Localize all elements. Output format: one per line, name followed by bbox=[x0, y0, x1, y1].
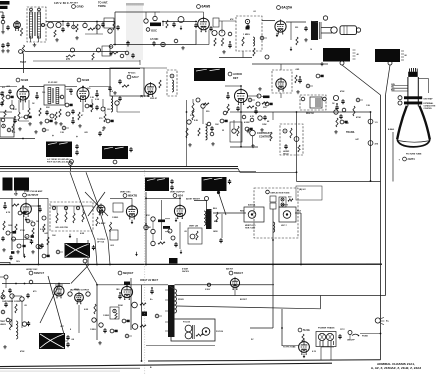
svg-text:68: 68 bbox=[102, 130, 104, 132]
resistor R53 bbox=[288, 199, 293, 201]
capacitor C41 bbox=[174, 242, 177, 247]
capacitor C45 bbox=[66, 335, 69, 340]
svg-text:1 MEG: 1 MEG bbox=[243, 34, 250, 36]
wire sync top bbox=[0, 197, 48, 199]
audio det dashed box bbox=[236, 16, 262, 51]
ground 16 bbox=[102, 126, 106, 130]
sound IF transformer can T1 bbox=[194, 68, 225, 81]
pin 39 bbox=[42, 216, 46, 220]
lead from can C50 bbox=[386, 65, 391, 95]
wire rect top bbox=[303, 338, 305, 342]
junction f2 bbox=[96, 264, 98, 266]
speaker bbox=[331, 26, 361, 35]
svg-text:22K: 22K bbox=[263, 107, 267, 109]
trimmer bbox=[60, 95, 64, 99]
pin 68 bbox=[1, 310, 5, 314]
terminal box 3 bbox=[110, 230, 118, 240]
ground 2 bbox=[55, 38, 59, 42]
junction e1 bbox=[186, 111, 188, 113]
pin 49 bbox=[205, 197, 209, 201]
capacitor x25 bbox=[3, 204, 6, 209]
label rect bbox=[298, 328, 310, 332]
title block bar 2 bbox=[0, 6, 8, 9]
capacitor blob x2 bbox=[29, 116, 32, 119]
svg-text:470K: 470K bbox=[356, 116, 361, 119]
wire sound if in2 bbox=[196, 44, 209, 46]
resistor R70 bbox=[110, 52, 118, 54]
horizontal coil can bbox=[65, 243, 91, 258]
capacitor C8 bbox=[116, 25, 119, 30]
ground 5 bbox=[6, 49, 10, 53]
scan edge artifact left bbox=[0, 371, 120, 372]
arrow down bbox=[290, 47, 293, 51]
wire agc stub bbox=[127, 45, 129, 48]
svg-text:.02: .02 bbox=[253, 11, 256, 13]
resistor R39 bbox=[32, 228, 34, 236]
lead x28 bbox=[30, 220, 33, 222]
wire stub up bbox=[87, 240, 89, 265]
resistor R68 bbox=[115, 313, 117, 319]
capacitor blob x29 bbox=[47, 255, 50, 258]
svg-text:3RD IF: 3RD IF bbox=[150, 98, 158, 100]
wire sync plate bbox=[31, 205, 39, 207]
svg-text:L.O.?25 MC 21.9 MC ADJ: L.O.?25 MC 21.9 MC ADJ bbox=[47, 158, 69, 161]
pin 28 bbox=[223, 111, 227, 115]
resistor R29 bold bbox=[263, 96, 270, 99]
can C49 terminal bbox=[340, 61, 344, 65]
wire 2 bbox=[194, 200, 207, 202]
wire tuner bottom bbox=[30, 36, 32, 42]
svg-text:ON-OFF: ON-OFF bbox=[347, 340, 355, 342]
wire to CRT cap1 bbox=[370, 112, 372, 181]
pin x33 bbox=[316, 74, 320, 78]
wire if bus1 bbox=[65, 86, 77, 88]
label vert out bbox=[173, 194, 183, 198]
yoke coil R symbol bbox=[283, 211, 291, 219]
capacitor C51 bbox=[284, 144, 287, 149]
junction x27 bbox=[39, 205, 41, 207]
junction a4 bbox=[195, 21, 197, 23]
resistor R59 bbox=[140, 325, 146, 327]
resistor R24 bbox=[198, 128, 200, 136]
svg-text:HOLD: HOLD bbox=[283, 153, 289, 155]
pin 29 bbox=[242, 115, 246, 119]
pin 47 bbox=[168, 229, 172, 233]
label horiz osc bbox=[29, 271, 44, 275]
resistor R2 bbox=[54, 30, 56, 37]
pin 42 bbox=[64, 206, 67, 209]
junction d1 bbox=[126, 284, 128, 286]
capacitor C52 bbox=[45, 110, 48, 115]
capacitor C14 bbox=[118, 79, 121, 84]
ground 6 bbox=[109, 52, 113, 56]
capacitor C42 bbox=[219, 238, 222, 243]
coil L3 bbox=[253, 37, 255, 46]
pin hh1 bbox=[283, 129, 287, 133]
capacitor blob x21 bbox=[127, 320, 130, 323]
wire speaker bot bbox=[321, 32, 332, 34]
resistor R48 bold bbox=[158, 220, 165, 223]
resistor R60 bbox=[196, 334, 203, 336]
svg-text:1W: 1W bbox=[36, 221, 39, 223]
svg-text:6.8K: 6.8K bbox=[80, 233, 85, 235]
wire tuner vertical bbox=[114, 12, 116, 45]
ground 23 bbox=[258, 87, 262, 91]
core line tuner 2 bbox=[35, 12, 37, 36]
ground 4 bbox=[1, 49, 5, 53]
width trans hatch bbox=[316, 98, 320, 107]
wire hv row2 bbox=[177, 295, 386, 297]
tube V14 horiz output bbox=[75, 292, 84, 305]
junction 4 bbox=[272, 239, 274, 241]
junction b3 bbox=[240, 85, 242, 87]
pin 74 bbox=[25, 235, 29, 239]
wire hv row3 bbox=[177, 306, 321, 309]
wire vert h bbox=[110, 197, 132, 199]
wire vert pins bbox=[152, 221, 154, 229]
junction x7 bbox=[72, 117, 74, 119]
wire bbox=[206, 201, 208, 210]
pin x8 bbox=[85, 104, 89, 108]
tube V11 vert osc bbox=[126, 204, 137, 219]
resistor R32 bbox=[227, 104, 229, 113]
junction 5 bbox=[281, 327, 283, 329]
svg-text:SYNC PULSE AMP: SYNC PULSE AMP bbox=[24, 190, 43, 193]
ground 12 bbox=[296, 90, 300, 94]
capacitor blob x15 bbox=[250, 128, 253, 131]
arrow down 5 bbox=[23, 254, 26, 258]
pin 54 bbox=[20, 297, 24, 301]
wire r8 top bbox=[76, 238, 78, 243]
switch arc bbox=[352, 334, 358, 335]
label 4AMP tube V2 bbox=[197, 5, 211, 9]
capacitor C38 bbox=[9, 255, 12, 260]
wire horizout v bbox=[78, 305, 80, 333]
wire integ stubs3 bbox=[73, 206, 75, 213]
wire rect h bbox=[282, 345, 299, 347]
wire osc v2 bbox=[154, 12, 156, 17]
wire sync v48 bbox=[47, 198, 49, 255]
svg-text:16: 16 bbox=[310, 49, 312, 51]
wire yoke chain bbox=[272, 209, 274, 328]
capacitor blob 5 bbox=[246, 27, 250, 30]
capacitor x14 bbox=[226, 94, 229, 99]
capacitor C56 bbox=[8, 288, 11, 293]
wire IF1 bbox=[29, 86, 44, 88]
wire vertical CRT bmag bbox=[392, 132, 394, 182]
tube V10 sync sep bbox=[97, 204, 105, 216]
wire rect drop 2 bbox=[330, 347, 332, 360]
diag wire X2 bbox=[88, 192, 105, 216]
cathode arrow 3 bbox=[25, 217, 28, 221]
capacitor C47 bbox=[103, 328, 106, 333]
resistor R20 bbox=[91, 103, 93, 112]
resistor R40 bbox=[43, 224, 45, 232]
capacitor C44 bbox=[27, 321, 30, 326]
pin 43 bbox=[76, 206, 79, 209]
svg-text:6AQ5A: 6AQ5A bbox=[282, 6, 293, 10]
svg-text:117V: 117V bbox=[340, 329, 345, 331]
pin 4 bbox=[108, 29, 112, 33]
resistor R23 bbox=[192, 103, 194, 113]
pin 25 bbox=[257, 94, 261, 98]
junction g3 bbox=[58, 283, 60, 285]
pin 64 bbox=[50, 114, 54, 118]
bus wire C bbox=[0, 263, 382, 265]
quadrature coil dashed box bbox=[167, 70, 177, 96]
terminal strip block bbox=[169, 258, 178, 264]
feedthru bbox=[19, 50, 23, 54]
yoke pictorial can bbox=[39, 333, 65, 349]
ground 13 bbox=[18, 127, 22, 131]
svg-text:21ZP4: 21ZP4 bbox=[408, 158, 416, 161]
wire sync left bbox=[11, 198, 13, 250]
antenna terminal bbox=[1, 20, 5, 24]
svg-text:115 V. 60 C.: 115 V. 60 C. bbox=[54, 1, 70, 5]
junction f1 bbox=[38, 264, 40, 266]
svg-text:VERT OSC: VERT OSC bbox=[120, 191, 131, 193]
capacitor x9 bbox=[95, 92, 98, 97]
junction f11 bbox=[22, 138, 24, 140]
speaker terminal bbox=[323, 16, 327, 20]
ground 18 bbox=[211, 142, 215, 146]
pin x6 bbox=[65, 103, 69, 107]
CRT socket pins bbox=[410, 68, 418, 72]
resistor R7 bbox=[113, 22, 115, 30]
terminal strip bbox=[102, 46, 110, 56]
wire tuner top bbox=[115, 11, 160, 13]
pin 20 bbox=[207, 122, 211, 126]
curved wire 2 bbox=[86, 172, 110, 264]
pin 11 bbox=[245, 19, 249, 23]
svg-text:2W: 2W bbox=[167, 227, 170, 229]
ground x5 bbox=[54, 121, 58, 125]
resistor R35 bbox=[353, 106, 355, 116]
capacitor C15 bbox=[246, 24, 249, 29]
CRT faceplate bbox=[397, 139, 430, 147]
capacitor C30 bbox=[75, 144, 78, 149]
AGC amp box bbox=[110, 68, 144, 96]
pin bbox=[97, 48, 101, 52]
lead x23 bbox=[159, 315, 162, 317]
pin 31 bbox=[301, 97, 305, 101]
pin x10 bbox=[106, 119, 110, 123]
resistor R16 bbox=[2, 95, 4, 104]
wire if top1 bbox=[22, 85, 24, 88]
arrow down 3 bbox=[180, 250, 183, 254]
pin 48 bbox=[171, 236, 175, 240]
terminal box bbox=[0, 118, 14, 137]
grid ring terminal bbox=[398, 101, 402, 105]
osc pin bbox=[144, 19, 148, 23]
capacitor blob x33 bbox=[321, 75, 324, 78]
integrator dashed box bbox=[50, 202, 93, 231]
junction f10 bbox=[240, 146, 242, 148]
junction c3 bbox=[179, 197, 181, 199]
resistor R19 bbox=[78, 112, 80, 120]
junction x20 bbox=[119, 292, 121, 294]
wire stub 2 bbox=[70, 165, 72, 171]
adjust screw bbox=[70, 160, 74, 164]
arrow down 2 bbox=[69, 234, 72, 238]
resistor R57 bbox=[94, 304, 96, 314]
wire B+ line bbox=[25, 51, 140, 53]
socket pin bbox=[109, 45, 113, 49]
svg-text:TRANS.: TRANS. bbox=[346, 131, 355, 134]
svg-text:6BQ6GT: 6BQ6GT bbox=[123, 271, 134, 275]
oscillator coil slug bbox=[150, 23, 161, 27]
junction f7 bbox=[296, 171, 298, 173]
trimmer top 2 bbox=[38, 8, 41, 11]
resistor R56 bbox=[9, 319, 11, 330]
capacitor C1 bbox=[1, 14, 4, 19]
capacitor C25 bbox=[236, 106, 239, 111]
wire det v bbox=[116, 105, 118, 112]
ground 29 bbox=[98, 341, 102, 345]
wire bot left h bbox=[0, 276, 4, 278]
svg-text:6.8K: 6.8K bbox=[84, 309, 89, 311]
junction x34 bbox=[229, 41, 231, 43]
sync coil can T7 bbox=[202, 177, 227, 191]
wire hv column bbox=[96, 284, 98, 340]
wire audio bbox=[219, 57, 252, 59]
capacitor C16 bbox=[304, 26, 307, 31]
wire if v8 bbox=[104, 107, 106, 114]
capacitor x27 bbox=[38, 207, 41, 212]
capacitor blob x10 bbox=[111, 120, 114, 123]
wire bottom v bbox=[141, 345, 143, 361]
coil L7 bbox=[206, 124, 208, 140]
wire left v bbox=[141, 285, 143, 345]
pin x21 bbox=[122, 319, 126, 323]
svg-text:1.5K: 1.5K bbox=[60, 132, 65, 134]
curved wire 1 bbox=[70, 172, 97, 264]
resistor R1 bbox=[20, 28, 22, 36]
horiz hold dashed box bbox=[280, 124, 303, 155]
resistor R11 bbox=[221, 38, 223, 46]
CRT socket base bbox=[408, 72, 418, 77]
svg-text:3.3K: 3.3K bbox=[90, 97, 95, 99]
horiz hold pot bbox=[294, 137, 299, 142]
svg-text:2.2K: 2.2K bbox=[40, 229, 45, 231]
capacitor C40 bbox=[92, 245, 95, 250]
svg-text:1 MEG: 1 MEG bbox=[112, 217, 119, 219]
capacitor C19 bbox=[69, 88, 72, 93]
ground 31 bbox=[59, 122, 63, 126]
pin 71 bbox=[170, 74, 174, 78]
resistor R5 bbox=[22, 45, 24, 54]
wire video v2 bbox=[233, 120, 235, 128]
yoke coil L symbol bbox=[248, 211, 256, 219]
capacitor C23 bbox=[210, 126, 213, 131]
wire 4amp bbox=[162, 22, 164, 27]
svg-text:4.5MC: 4.5MC bbox=[99, 222, 106, 225]
CRT ion trap ring bbox=[404, 96, 422, 99]
cathode arrow 2 bbox=[276, 33, 279, 37]
resistor R30 bbox=[262, 102, 268, 104]
tube cap mark bbox=[124, 282, 130, 285]
wire if bus0 bbox=[0, 86, 17, 88]
wire osc v bbox=[145, 12, 147, 19]
resistor R36 bbox=[12, 204, 19, 206]
capacitor C13 bbox=[152, 41, 155, 46]
lead x35 bbox=[264, 37, 267, 39]
resistor R8 bbox=[166, 20, 168, 28]
wire tuner bottom 2 bbox=[38, 36, 40, 42]
wire if h1 bbox=[0, 111, 12, 113]
ground bbox=[1, 30, 5, 34]
pin 44 bbox=[151, 217, 155, 221]
svg-text:2500V: 2500V bbox=[178, 299, 184, 301]
svg-text:LEADS: LEADS bbox=[0, 323, 7, 326]
resistor R22 bbox=[12, 124, 14, 132]
pin 76 bbox=[36, 245, 40, 249]
junction circle bbox=[69, 162, 73, 166]
junction d3 bbox=[234, 284, 236, 286]
pin x36 bbox=[340, 120, 344, 124]
wire plate stub bbox=[84, 22, 86, 24]
capacitor x31 bbox=[298, 78, 301, 83]
capacitor C48 bbox=[338, 334, 341, 339]
capacitor C28 inline bbox=[368, 119, 373, 124]
tube V4 AGC bbox=[145, 82, 156, 97]
ground 7 bbox=[181, 46, 185, 50]
core bbox=[52, 88, 54, 103]
wire bottom B bbox=[0, 363, 332, 366]
junction c2 bbox=[38, 205, 40, 207]
ion trap terminal bbox=[398, 96, 402, 100]
cathode arrow 4 bbox=[131, 220, 134, 224]
pin 40 bbox=[38, 245, 42, 249]
tube V12 vert out bbox=[174, 204, 185, 219]
resistor R41 bbox=[47, 237, 49, 245]
svg-text:+: + bbox=[76, 135, 78, 139]
wire ratio v bbox=[280, 64, 282, 70]
wire vert out h bbox=[146, 197, 180, 199]
capacitor blob 2 bbox=[31, 235, 34, 238]
wire vert h2 bbox=[165, 218, 170, 220]
svg-text:120: 120 bbox=[42, 92, 45, 94]
svg-text:3.9K: 3.9K bbox=[95, 99, 100, 101]
svg-text:TEST: TEST bbox=[20, 61, 27, 64]
tube V9 sync amp bbox=[21, 202, 32, 217]
label IF2 tube bbox=[77, 78, 89, 82]
junction x14 bbox=[227, 92, 229, 94]
junction b1 bbox=[22, 86, 24, 88]
resistor R47 bbox=[109, 222, 111, 232]
capacitor C29 inline bbox=[368, 141, 373, 146]
resistor R26 bbox=[192, 110, 194, 120]
svg-text:BLU: BLU bbox=[214, 221, 219, 223]
resistor R46 bbox=[82, 212, 84, 222]
capacitor C34 bbox=[170, 179, 173, 184]
tube V8 video amp bbox=[235, 88, 248, 105]
trimmer top bbox=[30, 8, 33, 11]
capacitor C31 bbox=[75, 150, 78, 155]
wire damper stub bbox=[234, 288, 236, 296]
wire plate 2 bbox=[163, 21, 197, 23]
junction x16 bbox=[255, 107, 257, 109]
ground 25 bbox=[2, 248, 6, 252]
ground 11 bbox=[320, 62, 324, 66]
capacitor C37 bbox=[1, 236, 4, 241]
wire bot v12 bbox=[11, 298, 13, 327]
wire contrast bbox=[230, 146, 258, 148]
wire yoke right v bbox=[300, 213, 302, 265]
wire hv row1 bbox=[175, 284, 275, 286]
wire vert stub bbox=[131, 198, 133, 206]
wire plate audio bbox=[262, 20, 275, 22]
